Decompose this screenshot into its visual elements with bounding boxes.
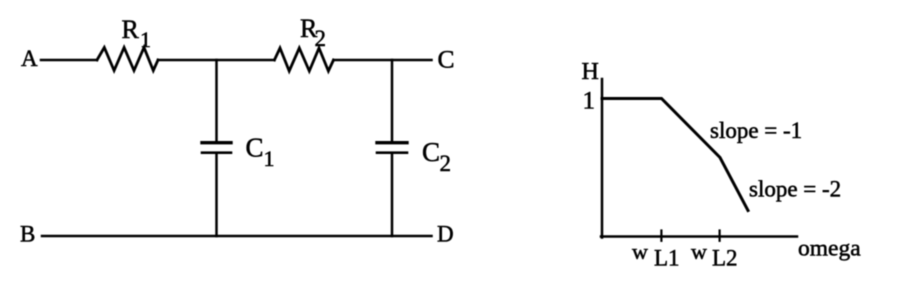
y-axis H (601, 79, 604, 238)
svg-text:1: 1 (583, 88, 596, 115)
svg-text:1: 1 (140, 27, 151, 52)
x-axis omega (601, 235, 797, 238)
capacitor C1 (202, 60, 231, 236)
wire R1 to R2 (158, 59, 274, 62)
svg-text:B: B (20, 222, 35, 247)
svg-text:C: C (422, 137, 440, 167)
bottom wire B to D (42, 235, 432, 238)
wire R2 to C (334, 59, 432, 62)
svg-text:A: A (21, 46, 38, 71)
svg-text:C: C (438, 45, 455, 74)
svg-text:w: w (632, 239, 648, 264)
svg-text:C: C (246, 133, 264, 163)
svg-text:w: w (691, 239, 707, 264)
svg-text:slope = -2: slope = -2 (749, 177, 841, 202)
resistor R2 (274, 48, 333, 71)
svg-text:2: 2 (315, 26, 327, 51)
svg-text:L1: L1 (654, 246, 680, 271)
svg-text:H: H (582, 59, 599, 85)
tick wL1 (660, 231, 662, 241)
tick wL2 (718, 231, 720, 241)
resistor R1 (97, 48, 158, 71)
svg-text:omega: omega (798, 236, 861, 262)
svg-text:2: 2 (440, 151, 452, 176)
svg-text:R: R (122, 15, 140, 44)
svg-text:D: D (437, 222, 454, 247)
svg-text:L2: L2 (712, 246, 738, 271)
svg-text:slope = -1: slope = -1 (710, 118, 802, 143)
capacitor C2 (377, 60, 407, 236)
svg-text:1: 1 (264, 146, 275, 171)
response curve (602, 99, 748, 211)
wire A to R1 (41, 59, 97, 62)
